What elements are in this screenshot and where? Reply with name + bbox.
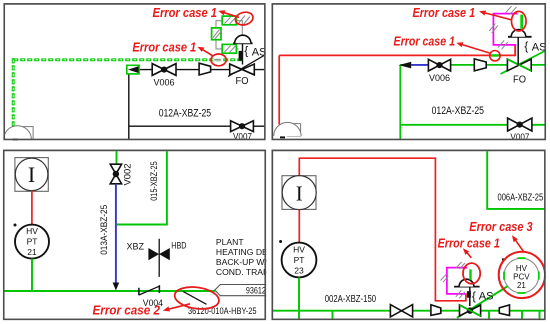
svg-text:36120-010A-HBY-25: 36120-010A-HBY-25 — [188, 306, 257, 316]
hatched box left (green) — [212, 28, 221, 40]
svg-text:AS: AS — [479, 290, 494, 302]
wire: red signal line horizontal — [279, 54, 515, 56]
node: black tick under dome — [280, 136, 285, 138]
node: black tick under dome — [13, 139, 18, 141]
svg-text:HV: HV — [26, 226, 38, 236]
valve V004 (slide symbol) — [138, 288, 140, 295]
control valve (with dot) — [460, 305, 481, 316]
node: black leader diagonal — [183, 291, 207, 304]
wire: magenta signal path — [447, 268, 467, 294]
instrument bubble HV PT 21 — [15, 225, 49, 259]
wire: green diagonal to PCV — [457, 286, 509, 318]
svg-text:AS: AS — [532, 42, 547, 54]
svg-text:XBZ: XBZ — [127, 241, 145, 251]
spec break XBZ/HBD — [158, 239, 160, 277]
wire: green lower run (line A) — [400, 124, 545, 126]
svg-text:V006: V006 — [154, 78, 175, 88]
red ellipse (Error case 2) — [173, 284, 220, 311]
red circle around gray dash — [211, 54, 226, 66]
panel 2 border frame — [272, 4, 545, 140]
panel 1 border frame — [4, 4, 265, 140]
actuator dome (diaphragm) — [454, 286, 480, 288]
wire: black vertical loop — [128, 74, 130, 140]
hatch marks bottom — [456, 290, 462, 297]
svg-text:{: { — [244, 44, 248, 58]
panel 3 border frame — [4, 150, 266, 319]
svg-text:{: { — [472, 289, 476, 303]
red circle around green dash — [490, 51, 500, 61]
wire: red link I to PT — [31, 191, 33, 225]
wire: red riser to magenta box — [514, 45, 516, 56]
pointer box 93612 — [215, 285, 268, 296]
svg-text:012A-XBZ-25: 012A-XBZ-25 — [432, 105, 484, 117]
svg-text:Error case 1: Error case 1 — [438, 236, 500, 250]
node: flow arrow — [399, 62, 412, 69]
wire: green vertical loop — [399, 65, 401, 140]
actuator stem — [469, 287, 471, 306]
svg-text:Error case 1: Error case 1 — [413, 6, 476, 20]
panel 4 border frame — [272, 150, 545, 319]
reducer cone — [474, 59, 486, 71]
instrument bubble HV PCV 21 with red circle (Error case 3) — [504, 258, 539, 293]
svg-text:013A-XBZ-25: 013A-XBZ-25 — [99, 205, 109, 255]
instrument box I — [282, 176, 316, 210]
reducer cone right — [499, 305, 509, 316]
wire: blue line down from V002 — [115, 184, 117, 283]
wire: red link I to PT — [298, 209, 300, 243]
svg-text:I: I — [296, 181, 303, 205]
hatch marks left edge — [489, 24, 495, 31]
hatched box bottom (green) — [222, 44, 236, 53]
valve (plain bowtie) — [390, 305, 412, 317]
control valve FO with green X — [501, 51, 545, 74]
valve V007 — [231, 121, 254, 132]
node: small dot — [14, 224, 17, 227]
node: green bar segment (diff, circled) — [469, 269, 471, 280]
valve V002 (vertical) — [110, 164, 121, 184]
valve V006 — [428, 59, 450, 71]
svg-text:21: 21 — [27, 247, 37, 257]
actuator stem — [517, 37, 519, 65]
equipment dome bottom-left (tank nozzle) — [287, 124, 300, 137]
node: green dash (diff) on red line inside red circle — [491, 54, 499, 57]
svg-text:FO: FO — [236, 75, 249, 87]
svg-text:HBD: HBD — [171, 241, 187, 251]
svg-text:PT: PT — [294, 255, 305, 265]
actuator dome (diaphragm) — [233, 42, 253, 44]
red ellipse around green bar — [463, 263, 480, 284]
wire: black pipe main run — [138, 69, 265, 71]
wire: blue segment — [411, 64, 428, 66]
wire: green main line — [272, 310, 545, 312]
svg-text:I: I — [28, 162, 35, 187]
hatch marks left edge — [441, 275, 447, 281]
wire: gray signal path rectangle — [216, 21, 242, 49]
svg-text:23: 23 — [294, 266, 304, 276]
svg-text:006A-XBZ-25: 006A-XBZ-25 — [498, 193, 544, 204]
red ellipse around corner hatch — [234, 10, 254, 26]
svg-text:002A-XBZ-150: 002A-XBZ-150 — [325, 294, 377, 305]
node: gray dash (diff) on dashed line inside red circle — [213, 59, 221, 61]
node: green bar segment (diff, circled) — [520, 15, 523, 29]
svg-text:HV: HV — [293, 245, 305, 255]
svg-text:015-XBZ-25: 015-XBZ-25 — [149, 161, 159, 201]
valve V007 — [508, 118, 532, 131]
reducer cone — [199, 63, 211, 75]
svg-text:V002: V002 — [123, 164, 133, 186]
svg-text:Error case 3: Error case 3 — [469, 220, 532, 234]
actuator dome (diaphragm) — [508, 36, 532, 38]
wire: magenta signal path — [493, 14, 517, 45]
svg-text:Error case 1: Error case 1 — [153, 6, 218, 20]
hatch marks bottom — [498, 40, 504, 47]
control valve FO with X — [228, 56, 264, 77]
svg-text:012A-XBZ-25: 012A-XBZ-25 — [159, 108, 211, 120]
node: arrowhead into main line — [113, 283, 120, 291]
svg-text:PLANT: PLANT — [216, 237, 244, 247]
wire: green stubs below main line — [332, 311, 334, 319]
hatched box top (green) — [222, 16, 236, 25]
wire: green stub at top to V002 — [116, 151, 118, 164]
svg-text:21: 21 — [517, 281, 526, 290]
svg-text:V006: V006 — [429, 73, 450, 83]
wire: red signal line vertical left — [278, 55, 280, 124]
svg-text:{: { — [524, 39, 528, 53]
red ellipse around green bar — [512, 11, 527, 31]
wire: green main line — [4, 290, 215, 292]
svg-text:Error case 2: Error case 2 — [93, 304, 161, 318]
hatch marks top-right — [505, 6, 512, 13]
svg-text:Error case 1: Error case 1 — [132, 40, 196, 54]
reducer cone left — [431, 305, 441, 316]
svg-text:Error case 1: Error case 1 — [394, 35, 456, 49]
instrument box I — [15, 158, 48, 192]
valve V006 — [152, 64, 176, 76]
hatch marks above top edge — [456, 262, 462, 268]
svg-text:PT: PT — [27, 237, 38, 247]
node: flow arrow box (green highlighted) — [127, 65, 139, 74]
actuator stem — [242, 43, 244, 64]
wire: green link PT to main line and below — [298, 277, 300, 318]
hatch marks at path corner (no box, circled) — [238, 16, 246, 25]
node: small dot — [279, 240, 282, 243]
wire: green dashed signal line horizontal — [13, 58, 241, 61]
wire: green pipe main run — [400, 64, 411, 66]
wire: red signal path — [299, 158, 466, 301]
wire: green L top right — [487, 151, 545, 209]
svg-text:93612: 93612 — [246, 285, 266, 295]
instrument bubble HV PT 23 — [282, 243, 317, 278]
wire: green link PT to main line — [31, 259, 33, 291]
svg-text:FO: FO — [513, 74, 526, 86]
wire: green dashed signal line vertical — [12, 58, 15, 127]
wire: black lower run (line A) — [129, 125, 265, 127]
wire: green L line — [117, 151, 167, 224]
equipment dome bottom-left (tank nozzle) — [14, 127, 33, 140]
